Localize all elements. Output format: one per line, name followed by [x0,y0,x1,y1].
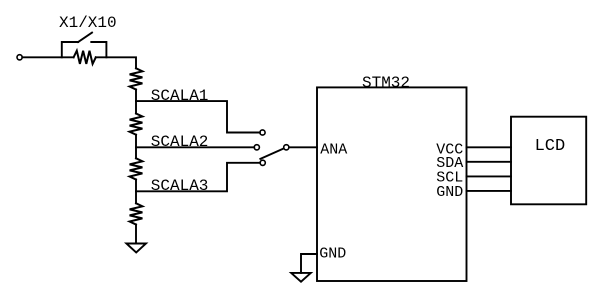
resistor R2 (divider top) [130,68,143,89]
resistor R4 [130,158,143,179]
wire R5 to ground [135,225,137,244]
svg-text:ANA: ANA [320,141,347,158]
LCD module body [511,117,586,205]
svg-text:STM32: STM32 [362,74,410,92]
node SCALA3 tap wire [136,163,260,192]
IC U1 STM32 body [317,87,467,281]
switch SW2 pole [284,145,289,150]
resistor R1 (input series) [74,51,96,64]
wire resistor to divider corner [96,57,136,68]
switch SW2 throw contact 1 (SCALA1) [260,130,265,135]
node SCALA1 tap wire [136,101,260,132]
wire R3 to R4 [135,135,137,159]
wire SCL [467,175,512,177]
wire R2 to R3 [135,90,137,114]
svg-text:GND: GND [436,184,463,201]
wire input to resistor [22,56,73,58]
node SCALA2 tap wire [136,146,254,148]
input terminal J1 [17,55,22,60]
svg-text:SCALA2: SCALA2 [151,133,209,151]
wire R4 to R5 [135,180,137,204]
svg-text:SCALA1: SCALA1 [151,87,209,105]
switch SW2 throw contact 3 (SCALA3) [260,160,265,165]
wire SDA [467,161,512,163]
svg-text:LCD: LCD [535,137,566,156]
ground (STM32) [291,273,311,282]
resistor R5 (divider bottom) [130,203,143,224]
wire VCC [467,146,512,148]
svg-text:SCALA3: SCALA3 [151,177,209,195]
wire node ANA [289,146,317,148]
wire GND pin [301,254,317,273]
svg-text:GND: GND [319,245,346,262]
switch SW2 lever [260,148,284,159]
svg-text:X1/X10: X1/X10 [59,14,117,32]
wire GND to LCD [467,190,512,192]
resistor R3 [130,114,143,135]
switch SW1 (X1/X10 bypass) [62,33,107,58]
ground (divider) [126,244,146,253]
switch SW2 throw contact 2 (SCALA2) [254,145,259,150]
